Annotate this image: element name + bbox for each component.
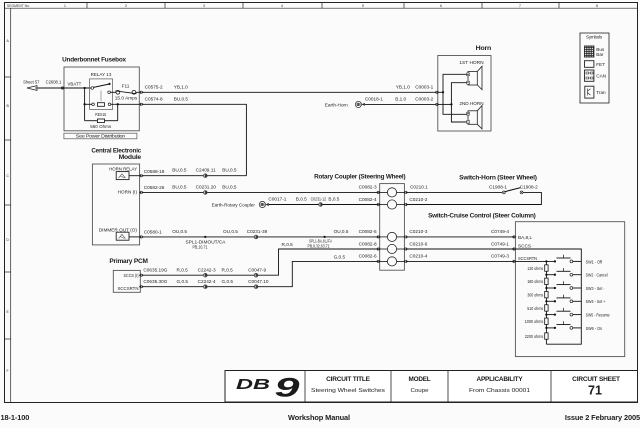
svg-text:Rotary Coupler (Steering Wheel: Rotary Coupler (Steering Wheel) [314, 174, 405, 181]
svg-text:C0082-5: C0082-5 [359, 229, 377, 234]
wire VBATT into fusebox [38, 87, 92, 89]
svg-text:SCCS (I): SCCS (I) [124, 273, 139, 278]
svg-text:C0749-1: C0749-1 [491, 241, 509, 246]
svg-text:4: 4 [281, 4, 283, 8]
svg-text:Switch-Cruise Control (Steer C: Switch-Cruise Control (Steer Column) [428, 212, 536, 219]
svg-text:SEGMENT No.: SEGMENT No. [7, 4, 30, 8]
column dividers [87, 3, 559, 9]
svg-text:B,0.5: B,0.5 [328, 197, 339, 202]
svg-text:OU,0.5: OU,0.5 [172, 229, 187, 234]
svg-text:DIMMER OUT (O): DIMMER OUT (O) [99, 227, 138, 232]
svg-text:7: 7 [519, 4, 521, 8]
svg-text:C2608.1: C2608.1 [46, 80, 62, 85]
dimmer icon in CEM [116, 232, 129, 240]
see power distribution box [64, 133, 137, 139]
svg-text:D: D [6, 238, 9, 242]
svg-text:APPLICABILITY: APPLICABILITY [477, 376, 523, 383]
primary PCM box [113, 270, 140, 292]
svg-text:C0047.10: C0047.10 [248, 279, 269, 284]
connector C0231-12 inline [319, 203, 323, 207]
svg-text:C2242-3: C2242-3 [198, 268, 216, 273]
connector C0574-8 at fusebox right edge [139, 103, 144, 106]
connector C0635.30G at PCM edge [139, 285, 144, 288]
svg-text:B,0.5: B,0.5 [296, 197, 307, 202]
fuse F11 [116, 90, 120, 94]
svg-text:C0018-1: C0018-1 [365, 96, 383, 101]
speaker 1ST HORN [467, 66, 482, 89]
svg-text:Issue 2 February 2005: Issue 2 February 2005 [565, 413, 640, 422]
ground Earth-Horn [355, 101, 365, 107]
svg-text:Switch-Horn (Steer Wheel): Switch-Horn (Steer Wheel) [459, 174, 537, 181]
svg-text:C0231.20: C0231.20 [196, 184, 217, 189]
svg-text:Earth-Horn: Earth-Horn [325, 102, 348, 107]
svg-text:2: 2 [125, 4, 127, 8]
relay actuator line [100, 91, 102, 102]
relay blade [94, 84, 110, 87]
svg-text:C0210-3: C0210-3 [409, 229, 427, 234]
svg-text:C0582-26: C0582-26 [144, 185, 165, 190]
svg-text:SCCS: SCCS [518, 244, 531, 249]
svg-text:Underbonnet Fusebox: Underbonnet Fusebox [62, 57, 127, 64]
svg-text:C0210.1: C0210.1 [410, 184, 428, 189]
svg-text:C0047-9: C0047-9 [248, 268, 266, 273]
switch SW2 - Cancel [545, 268, 607, 278]
svg-text:BA,8,L: BA,8,L [518, 235, 532, 240]
svg-text:Workshop Manual: Workshop Manual [288, 413, 350, 422]
svg-text:Primary PCM: Primary PCM [109, 258, 147, 265]
svg-text:MODEL: MODEL [409, 376, 431, 383]
switch SW5 - Resume [545, 308, 610, 318]
connectors C0210-x at coupler right edge [403, 191, 408, 194]
wire YB,1.0 to horn [143, 91, 436, 93]
connector C0047-10 inline [254, 285, 258, 289]
svg-text:2200 ohms: 2200 ohms [525, 334, 544, 339]
wire C0210-3 to box [407, 236, 514, 238]
node horn plus junction [442, 91, 444, 93]
svg-text:E: E [6, 310, 9, 314]
relay icon in CEM [116, 172, 129, 180]
svg-text:560 Ohms: 560 Ohms [90, 124, 111, 129]
wire C0210.1 to switch [407, 191, 502, 193]
connector C0582-26 at CEM edge [139, 191, 144, 194]
svg-text:OU,0.5: OU,0.5 [223, 229, 238, 234]
connector C0047-9 inline [254, 273, 258, 277]
relay NO contact [108, 91, 111, 94]
svg-text:CAN: CAN [596, 74, 606, 79]
horn + distribution wire [438, 91, 443, 93]
coupler contact rings [387, 188, 396, 266]
svg-text:C0749-3: C0749-3 [491, 254, 509, 259]
svg-text:120 ohms: 120 ohms [527, 266, 544, 271]
ground Earth-Rotary Coupler [259, 201, 269, 207]
connector C2242-3 inline [203, 273, 207, 277]
svg-text:From Chassis 00001: From Chassis 00001 [469, 388, 530, 394]
svg-text:C2409.11: C2409.11 [196, 168, 216, 173]
svg-text:C0003-1: C0003-1 [415, 84, 433, 89]
node SPL1-BA splice [323, 236, 325, 238]
svg-text:Module: Module [119, 154, 142, 161]
resistor 1000 ohms [545, 318, 548, 324]
wire VBATT branch down [84, 88, 86, 121]
switch-horn blade [505, 188, 521, 192]
svg-text:C0210-4: C0210-4 [409, 254, 427, 259]
svg-text:5: 5 [362, 4, 364, 8]
svg-text:G,0.5: G,0.5 [334, 254, 346, 259]
wire switch to return loop [407, 192, 541, 204]
connector C0231.20 inline [203, 191, 207, 195]
connector C0635.19G at PCM edge [139, 274, 144, 277]
connector C0003-1 at horn box edge [435, 91, 440, 94]
svg-text:C2242-4: C2242-4 [198, 279, 216, 284]
svg-text:C0231-12: C0231-12 [311, 197, 327, 202]
connector C0231-39 inline [254, 235, 258, 239]
switch-cruise box [515, 222, 624, 357]
Tran symbol [585, 86, 594, 98]
svg-text:BU,0.5: BU,0.5 [174, 96, 189, 101]
resistor 510 ohms [545, 305, 548, 311]
svg-text:C0575-2: C0575-2 [145, 84, 163, 89]
wire horn switch sense [143, 191, 379, 193]
node coil right junction [117, 103, 119, 105]
svg-text:PB,10,71: PB,10,71 [193, 245, 208, 250]
wire SCCS from PCM [143, 249, 379, 275]
svg-text:C0580-1: C0580-1 [144, 230, 162, 235]
connectors C0082-x at coupler left edge [376, 191, 381, 194]
coupler internal wire stubs [380, 192, 405, 261]
svg-text:C0749-4: C0749-4 [491, 229, 509, 234]
svg-text:RELAY 13: RELAY 13 [91, 72, 112, 77]
relay contact common [91, 87, 94, 90]
svg-text:9: 9 [275, 372, 300, 402]
svg-text:Steering Wheel Switches: Steering Wheel Switches [311, 388, 385, 394]
svg-text:1ST HORN: 1ST HORN [459, 60, 483, 65]
svg-text:R,0.5: R,0.5 [177, 268, 189, 273]
svg-text:SW3 - Set -: SW3 - Set - [586, 286, 605, 291]
svg-text:300 ohms: 300 ohms [527, 293, 544, 298]
svg-text:BU,0.5: BU,0.5 [172, 168, 187, 173]
svg-text:HORN (I): HORN (I) [118, 189, 138, 194]
relay coil with terminals [92, 103, 95, 106]
svg-text:BU,0.5: BU,0.5 [222, 184, 237, 189]
svg-text:SCCSRTN: SCCSRTN [518, 256, 537, 261]
node coil left junction [83, 103, 85, 105]
resistor 180 ohms [545, 278, 548, 284]
relay RELAY 13 box [90, 79, 113, 110]
underbonnet fusebox box [64, 67, 139, 131]
connector C2409.11 inline [203, 174, 207, 178]
sheet 57 off-sheet arrow [27, 86, 40, 91]
resistor 300 ohms [545, 291, 548, 297]
FET symbol [585, 61, 594, 68]
svg-text:YB,1.0: YB,1.0 [396, 84, 410, 89]
connector C0003-2 at horn box edge [435, 103, 440, 106]
wire SCCSRTN into SW1 [515, 260, 555, 262]
earth rotary wire [269, 204, 378, 206]
symbols legend box [580, 33, 609, 103]
switch SW4 - Set + [545, 295, 606, 305]
svg-text:PB,9,32,63,71: PB,9,32,63,71 [308, 243, 330, 248]
svg-text:C0210-6: C0210-6 [409, 241, 427, 246]
svg-text:Bar: Bar [596, 52, 604, 57]
svg-text:C0635.30G: C0635.30G [143, 279, 167, 284]
svg-text:G,0.5: G,0.5 [222, 279, 234, 284]
connector C2608.1 at fusebox edge [60, 86, 65, 89]
connector C0588-18 at CEM edge [139, 174, 144, 177]
switch SW3 - Set - [545, 281, 605, 291]
svg-text:Tran: Tran [596, 90, 606, 95]
wire SCCSRTN from PCM [143, 261, 379, 286]
svg-text:SW5 - Resume: SW5 - Resume [586, 313, 610, 318]
node horn minus junction [450, 103, 452, 105]
svg-text:SW2 - Cancel: SW2 - Cancel [586, 273, 608, 278]
svg-text:C: C [6, 174, 9, 178]
node VBATT junction [83, 87, 85, 89]
resistor ladder vertical [545, 261, 547, 344]
resistor 120 ohms [545, 265, 548, 271]
earth horn wire [365, 103, 436, 105]
svg-text:71: 71 [588, 384, 602, 398]
connector C0575-2 at fusebox right edge [139, 91, 144, 94]
row letters [6, 39, 9, 373]
svg-text:Sheet 57: Sheet 57 [23, 80, 40, 85]
svg-text:SW6 - On: SW6 - On [586, 326, 603, 331]
svg-text:G,0.5: G,0.5 [177, 279, 189, 284]
resistor 2200 ohms [545, 333, 548, 339]
central electronic module box [92, 164, 139, 245]
svg-text:FET: FET [596, 62, 605, 67]
svg-text:C0588-18: C0588-18 [144, 169, 165, 174]
svg-text:C0017-1: C0017-1 [268, 197, 286, 202]
node SPL1-DIMOUT splice [204, 236, 206, 238]
svg-text:6: 6 [440, 4, 442, 8]
svg-text:HORN RELAY: HORN RELAY [109, 166, 138, 171]
svg-text:F: F [7, 369, 9, 373]
switch-horn SW contacts [502, 191, 505, 194]
svg-text:C1908-2: C1908-2 [520, 185, 538, 190]
svg-text:180 ohms: 180 ohms [527, 279, 544, 284]
svg-text:C0082-3: C0082-3 [359, 184, 377, 189]
svg-text:18-1-100: 18-1-100 [1, 413, 30, 422]
svg-text:Symbols: Symbols [586, 35, 603, 40]
svg-text:CIRCUIT SHEET: CIRCUIT SHEET [572, 376, 620, 383]
svg-text:R,0.5: R,0.5 [222, 268, 234, 273]
connector C0580-1 at CEM edge [139, 235, 144, 238]
wire C0210-6 to box [407, 248, 514, 250]
connectors C0749-x at cruise box edge [512, 235, 517, 238]
svg-text:C0574-8: C0574-8 [145, 96, 163, 101]
wire dimmer out [143, 236, 379, 238]
svg-text:B,1.0: B,1.0 [395, 96, 406, 101]
speaker 2ND HORN [467, 106, 482, 129]
svg-text:8: 8 [596, 4, 598, 8]
CAN symbol [585, 70, 594, 81]
rotary coupler box [380, 184, 405, 271]
svg-text:C0082-8: C0082-8 [359, 241, 377, 246]
svg-text:3: 3 [203, 4, 205, 8]
svg-text:1000 ohms: 1000 ohms [525, 319, 544, 324]
connector C2242-4 inline [203, 285, 207, 289]
horn box [438, 56, 491, 132]
svg-text:SW4 - Set +: SW4 - Set + [586, 299, 606, 304]
border frame top strip line [5, 7, 638, 9]
svg-text:C0210-2: C0210-2 [409, 197, 427, 202]
svg-text:RES15: RES15 [95, 112, 106, 117]
svg-text:C0082-4: C0082-4 [359, 197, 377, 202]
svg-text:OU,0.5: OU,0.5 [334, 229, 349, 234]
title block [225, 371, 638, 403]
wire horn relay drive [143, 175, 247, 177]
svg-text:15.0 Amps: 15.0 Amps [115, 96, 138, 101]
svg-text:BU,0.5: BU,0.5 [222, 168, 237, 173]
wire C0210-4 to box [407, 260, 514, 262]
wire SCCS bus (top/right/bottom U) [515, 249, 581, 344]
svg-text:VBATT: VBATT [68, 82, 82, 87]
svg-text:CIRCUIT TITLE: CIRCUIT TITLE [326, 376, 370, 383]
svg-text:C0231-39: C0231-39 [247, 229, 268, 234]
svg-text:F11: F11 [122, 84, 130, 89]
svg-text:R,0.5: R,0.5 [282, 242, 294, 247]
bus bar symbol [585, 46, 594, 57]
svg-text:B: B [6, 104, 9, 108]
svg-text:Earth-Rotary Coupler: Earth-Rotary Coupler [212, 202, 256, 207]
svg-text:2ND HORN: 2ND HORN [459, 101, 483, 106]
svg-text:BU,0.5: BU,0.5 [172, 184, 187, 189]
column numbers [64, 4, 598, 8]
svg-text:C1908-1: C1908-1 [489, 185, 507, 190]
svg-text:C0635.19G: C0635.19G [143, 268, 167, 273]
switch SW6 - On [545, 321, 602, 331]
row dividers [5, 77, 11, 339]
svg-text:C0082-6: C0082-6 [359, 254, 377, 259]
svg-text:C0003-2: C0003-2 [415, 96, 433, 101]
resistor RES15 [85, 120, 98, 122]
svg-text:510 ohms: 510 ohms [527, 306, 544, 311]
border frame left strip line [10, 8, 12, 402]
svg-text:Coupe: Coupe [411, 388, 429, 394]
svg-text:1: 1 [64, 4, 66, 8]
svg-text:See Power Distribution: See Power Distribution [76, 134, 126, 139]
wire coil row [85, 103, 92, 105]
wire BU,0.5 fusebox to CEM net [143, 104, 247, 175]
svg-text:A: A [6, 39, 9, 43]
svg-text:SCCSRTN: SCCSRTN [118, 286, 139, 291]
svg-text:Horn: Horn [476, 45, 492, 52]
switch SW1 - Off [545, 255, 602, 265]
svg-text:YB,1.0: YB,1.0 [174, 84, 188, 89]
wire relay NO to fuse [110, 91, 116, 93]
svg-text:SW1 - Off: SW1 - Off [586, 259, 603, 264]
horn - distribution wire [438, 103, 451, 105]
svg-text:DB: DB [236, 376, 270, 393]
